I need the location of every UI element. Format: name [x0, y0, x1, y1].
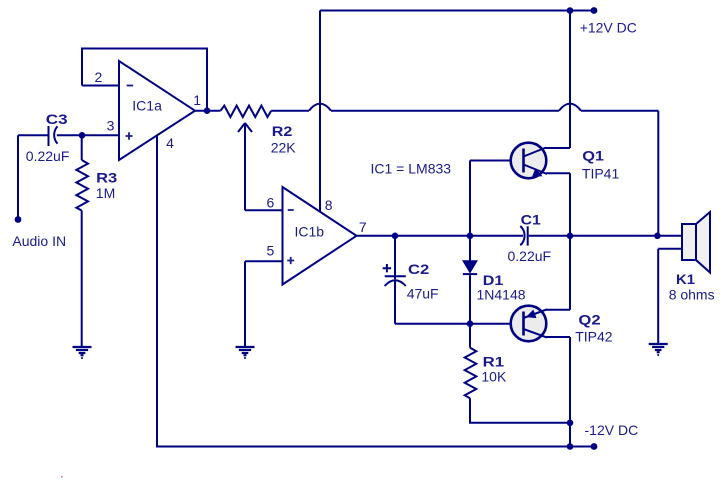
svg-text:0.22uF: 0.22uF: [508, 248, 552, 264]
svg-text:5: 5: [267, 243, 275, 259]
svg-text:IC1a: IC1a: [132, 97, 162, 113]
svg-text:+12V DC: +12V DC: [580, 20, 637, 36]
svg-text:TIP42: TIP42: [575, 329, 613, 345]
svg-text:C2: C2: [408, 262, 429, 277]
svg-text:-12V DC: -12V DC: [585, 422, 639, 438]
svg-text:IC1b: IC1b: [295, 223, 325, 239]
svg-text:1: 1: [193, 92, 201, 108]
svg-text:8: 8: [325, 197, 333, 213]
svg-text:2: 2: [95, 69, 103, 85]
svg-text:C1: C1: [521, 212, 541, 228]
svg-text:47uF: 47uF: [407, 285, 439, 301]
svg-text:D1: D1: [483, 273, 504, 289]
svg-text:C3: C3: [46, 112, 68, 127]
svg-text:7: 7: [359, 219, 367, 235]
svg-text:8 ohms: 8 ohms: [669, 287, 715, 303]
svg-text:K1: K1: [676, 272, 695, 288]
svg-text:R1: R1: [483, 355, 505, 370]
svg-text:4: 4: [166, 135, 174, 151]
svg-text:1M: 1M: [96, 185, 115, 201]
svg-text:Audio IN: Audio IN: [12, 233, 66, 249]
svg-text:Q2: Q2: [578, 313, 600, 328]
svg-text:6: 6: [267, 195, 275, 211]
svg-text:Q1: Q1: [582, 149, 604, 165]
svg-text:R2: R2: [272, 124, 293, 140]
svg-text:TIP41: TIP41: [582, 166, 620, 182]
svg-text:3: 3: [107, 118, 115, 134]
svg-text:22K: 22K: [271, 139, 297, 155]
svg-text:10K: 10K: [481, 368, 507, 384]
svg-text:IC1 = LM833: IC1 = LM833: [371, 160, 452, 176]
svg-text:R3: R3: [96, 171, 117, 187]
svg-text:0.22uF: 0.22uF: [26, 148, 70, 164]
